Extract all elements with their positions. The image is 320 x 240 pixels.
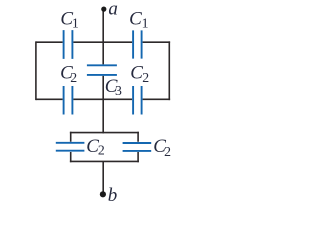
svg-text:2: 2	[164, 144, 171, 159]
svg-text:1: 1	[142, 16, 149, 31]
svg-text:2: 2	[98, 143, 105, 158]
svg-text:b: b	[108, 185, 118, 206]
svg-text:a: a	[108, 0, 118, 20]
svg-text:2: 2	[70, 70, 77, 85]
svg-text:3: 3	[115, 83, 122, 98]
svg-text:C: C	[129, 9, 142, 30]
svg-text:1: 1	[72, 15, 79, 30]
svg-text:2: 2	[142, 70, 149, 85]
